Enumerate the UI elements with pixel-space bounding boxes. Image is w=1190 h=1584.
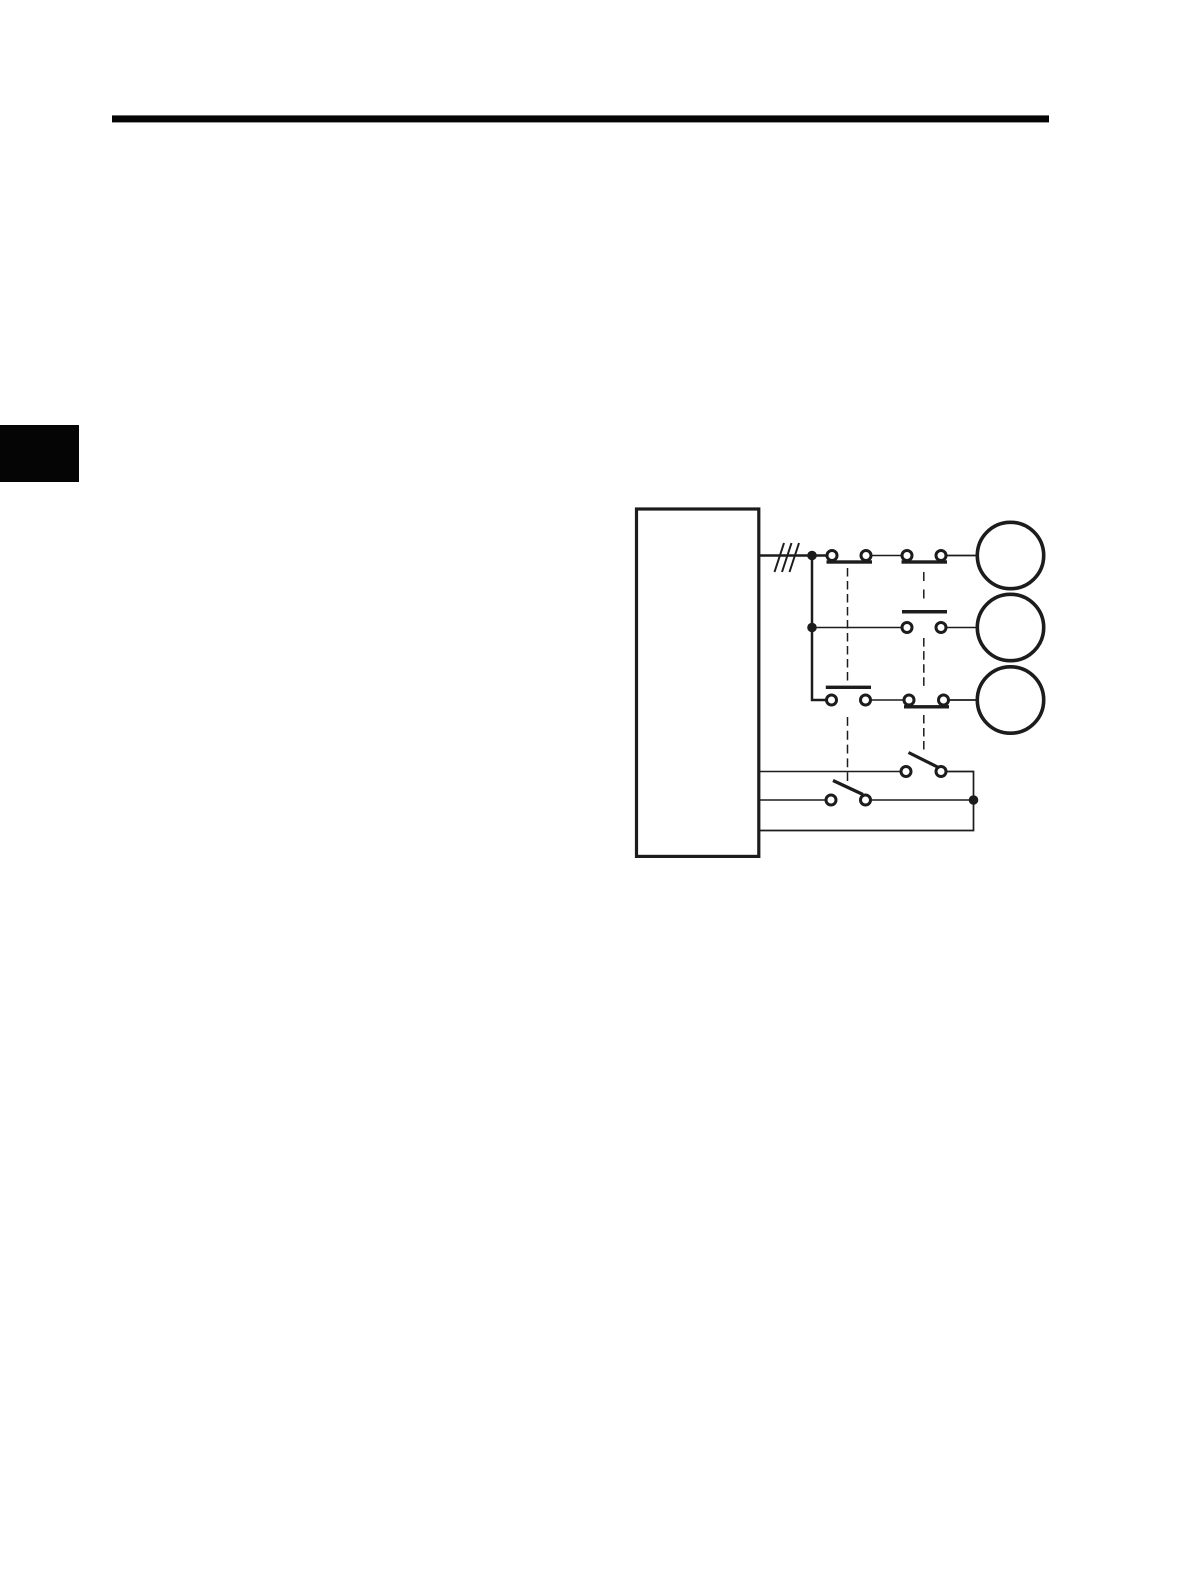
top rule <box>112 115 1049 122</box>
wire 3-phase feed <box>758 554 812 557</box>
node junction dot right bus <box>969 795 979 805</box>
3-phase slash marks <box>775 543 785 572</box>
wire row2 <box>812 627 902 629</box>
controller box U1 <box>637 509 759 856</box>
chapter tab <box>0 425 79 482</box>
node junction dot row2 <box>807 623 817 633</box>
switch S2 (aux contact open) <box>826 781 871 806</box>
contact MC1 row1 (NO, bar below) <box>827 551 873 564</box>
motor M3 <box>977 667 1043 733</box>
wire row1 to contact <box>812 554 827 557</box>
mechanical link dashed MC2 middle <box>923 638 925 686</box>
wire aux row2 to right bus <box>871 799 974 801</box>
wire row3 to motor <box>950 699 979 701</box>
wire row2 to motor <box>947 627 977 629</box>
switch S1 (aux contact open) <box>901 753 946 777</box>
wire aux row1 <box>758 771 901 773</box>
motor M2 <box>977 594 1043 660</box>
contact MC2 row2 (NC, bar above) <box>902 610 947 633</box>
mechanical link dashed MC2 upper <box>923 572 925 599</box>
node junction dot row1 <box>807 551 817 561</box>
wire aux row1 to right bus <box>758 772 974 831</box>
mechanical link dashed MC2 lower <box>923 715 925 750</box>
wire vertical bus <box>812 556 826 701</box>
wire link row1 <box>872 555 902 557</box>
wire link row3 <box>871 699 904 701</box>
contact MC1 row3 (NC, bar above) <box>826 686 871 705</box>
wire row1 to motor <box>947 555 976 557</box>
contact MC2 row1 (NO, bar below) <box>902 551 948 564</box>
mechanical link dashed MC1 lower <box>847 717 849 781</box>
wire aux row2 <box>758 799 826 801</box>
motor M1 <box>977 522 1043 588</box>
contact MC3 row3 (NO, bar below) <box>904 695 949 709</box>
mechanical link dashed MC1 upper <box>847 568 849 681</box>
